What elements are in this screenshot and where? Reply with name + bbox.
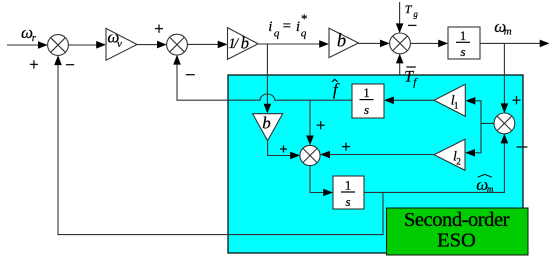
svg-text:1: 1 (345, 178, 352, 193)
svg-text:ESO: ESO (437, 229, 476, 251)
svg-text:v: v (117, 38, 122, 50)
svg-text:Second-order: Second-order (404, 209, 510, 231)
svg-text:s: s (345, 194, 350, 209)
svg-text:2: 2 (456, 156, 461, 166)
svg-text:1: 1 (363, 85, 370, 100)
svg-text:=: = (283, 18, 291, 34)
svg-text:q: q (301, 27, 307, 39)
svg-text:r: r (32, 32, 37, 44)
svg-text:1: 1 (460, 28, 467, 43)
svg-text:i: i (296, 19, 300, 35)
svg-text:g: g (413, 9, 418, 19)
svg-text:m: m (504, 26, 512, 38)
svg-text:b: b (262, 113, 271, 132)
svg-text:i: i (268, 19, 272, 35)
svg-text:q: q (274, 27, 280, 39)
svg-text:m: m (487, 184, 494, 194)
svg-text:s: s (364, 102, 369, 117)
svg-text:b: b (337, 32, 346, 52)
svg-text:1: 1 (454, 100, 459, 110)
svg-text:s: s (460, 44, 465, 59)
svg-text:*: * (301, 11, 308, 26)
svg-text:b: b (241, 33, 249, 52)
